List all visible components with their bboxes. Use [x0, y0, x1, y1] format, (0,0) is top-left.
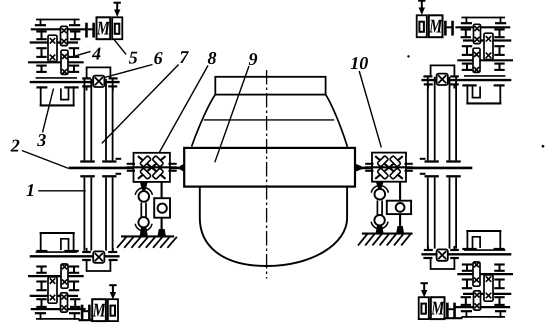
svg-text:M: M — [428, 17, 442, 38]
svg-text:5: 5 — [129, 47, 138, 67]
svg-text:3: 3 — [36, 130, 46, 150]
svg-text:9: 9 — [249, 49, 258, 69]
svg-text:4: 4 — [91, 44, 101, 64]
svg-text:8: 8 — [208, 48, 217, 68]
svg-text:7: 7 — [179, 47, 189, 67]
svg-text:M: M — [96, 19, 110, 40]
svg-text:M: M — [92, 301, 106, 322]
svg-text:M: M — [430, 299, 444, 320]
svg-text:2: 2 — [10, 135, 20, 155]
svg-text:10: 10 — [350, 53, 368, 73]
svg-text:1: 1 — [26, 180, 35, 200]
svg-text:6: 6 — [154, 48, 163, 68]
